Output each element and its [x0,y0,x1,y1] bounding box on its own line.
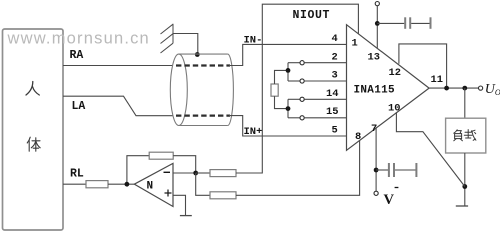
V+ terminal [375,2,379,6]
terminal circle pin 3 [300,79,304,83]
op-amp N [134,163,173,206]
wire shield to IN- [229,44,347,65]
wire feedback to minus node [173,156,196,173]
resistor upper [210,170,236,177]
dashed RA in shield [176,64,230,66]
wire pin 3 [304,80,346,82]
svg-text:IN+: IN+ [244,126,263,138]
svg-text:V: V [384,192,395,208]
shield ground [161,24,174,53]
op-amp N feedback loop [127,156,149,185]
RG bottom lead [275,96,289,108]
junction dot minus node [193,171,198,176]
terminal circle pin 14 [300,97,304,101]
resistor on RL [86,181,108,188]
wire minus node down [196,173,210,195]
wire V+ to pin 13 [376,6,378,48]
wire RL [63,183,87,185]
svg-text:INA115: INA115 [354,85,396,97]
wire bracket pins 14-15 [288,99,300,118]
svg-text:1: 1 [352,38,358,50]
glyph 人 [26,82,39,96]
junction dot V+ [375,21,380,26]
dashed LA in shield [176,114,230,116]
pin 7 wire V- [375,128,377,191]
wire RA [63,65,173,67]
output terminal [479,86,483,90]
wire pin 14 [304,98,346,100]
svg-text:5: 5 [332,125,338,137]
svg-text:2: 2 [332,51,338,63]
glyph 载 [464,130,476,141]
svg-text:3: 3 [332,70,338,82]
plus input wire to ground [173,195,186,215]
svg-text:15: 15 [326,106,338,118]
svg-text:IN-: IN- [244,35,263,47]
RG top lead [275,70,289,84]
glyph 负 [454,130,463,141]
wire shield to IN+ [229,116,347,136]
svg-text:LA: LA [72,100,86,113]
minus sign [164,171,171,173]
resistor lower [210,192,236,199]
junction dot shield [195,52,200,57]
junction dot feedback [444,86,449,91]
svg-text:www.mornsun.cn: www.mornsun.cn [7,30,150,48]
feedback resistor [149,152,173,159]
capacitor C2 on V- rail [376,163,416,177]
pin 12 feedback loop [399,44,447,88]
wire upper resistor to NIOUT [236,172,262,174]
capacitor C1 on V+ rail [377,17,430,29]
cable shield cylinder [170,54,233,125]
wire to load [464,88,466,118]
wire bracket pins 2-3 [288,63,300,81]
glyph 体 [27,137,40,151]
svg-text:RL: RL [70,168,84,181]
pin 10 wire to load bottom [396,112,464,186]
output wire [429,87,479,89]
label V- [384,188,399,209]
junction dot lower [286,106,291,111]
load box [446,118,486,153]
wire pin 2 [304,62,346,64]
svg-text:12: 12 [389,67,401,79]
svg-text:13: 13 [368,52,380,64]
svg-text:14: 14 [326,88,338,100]
wire LA [63,96,173,116]
junction dot load [462,86,467,91]
wire load to ground [464,153,466,206]
wire RL to opamp [108,183,134,185]
wire ground to shield [173,34,198,55]
svg-text:4: 4 [332,33,338,45]
NIOUT wire box [236,4,358,173]
terminal circle pin 15 [300,116,304,120]
gain network resistor RG [271,84,278,96]
terminal circle pin 2 [300,61,304,65]
human body box [3,29,64,230]
minus input wire [173,172,196,174]
junction dot load bottom [462,184,467,189]
ground opamp [180,215,192,217]
svg-text:8: 8 [355,131,361,143]
svg-text:NIOUT: NIOUT [293,9,331,22]
junction dot upper [286,68,291,73]
plus sign [165,190,172,197]
svg-text:RA: RA [70,49,84,62]
ground load [456,205,468,207]
svg-text:11: 11 [431,74,443,86]
wire pin 15 [304,117,346,119]
wire minus node to upper resistor [196,172,210,174]
op-amp INA115 [347,25,430,151]
wire lower resistor to pin 8 [236,141,360,196]
junction dot V- [374,168,379,173]
svg-text:N: N [147,181,154,193]
junction dot RL node [125,182,130,187]
V- terminal [374,191,378,195]
svg-text:10: 10 [388,102,400,114]
